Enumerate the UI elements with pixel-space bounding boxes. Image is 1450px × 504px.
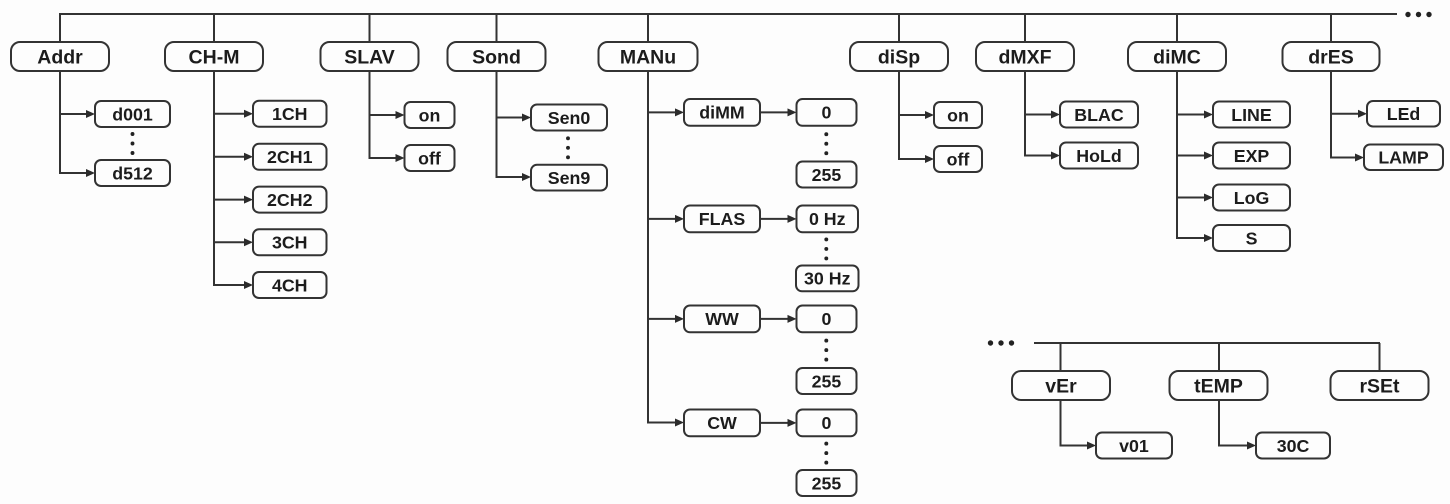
svg-text:4CH: 4CH [272,275,308,295]
svg-text:Sen9: Sen9 [548,168,591,188]
svg-text:d001: d001 [112,104,153,124]
svg-text:255: 255 [812,473,842,493]
svg-text:2CH1: 2CH1 [267,147,313,167]
svg-text:30C: 30C [1277,436,1310,456]
svg-text:rSEt: rSEt [1359,375,1400,397]
svg-text:WW: WW [705,309,739,329]
svg-text:drES: drES [1308,46,1354,68]
svg-text:LINE: LINE [1231,105,1272,125]
svg-text:Sen0: Sen0 [548,108,591,128]
svg-text:v01: v01 [1119,436,1149,456]
svg-text:off: off [947,149,970,169]
svg-text:off: off [418,148,441,168]
svg-text:3CH: 3CH [272,233,308,253]
svg-text:HoLd: HoLd [1076,146,1121,166]
svg-text:255: 255 [812,371,842,391]
svg-text:Addr: Addr [37,46,83,68]
svg-text:diSp: diSp [878,46,920,68]
svg-text:0: 0 [822,413,832,433]
svg-text:CW: CW [707,413,737,433]
svg-text:diMM: diMM [699,103,744,123]
svg-text:LAMP: LAMP [1378,148,1429,168]
svg-text:on: on [419,105,441,125]
svg-text:255: 255 [812,165,842,185]
svg-text:FLAS: FLAS [699,209,746,229]
svg-text:SLAV: SLAV [344,46,395,68]
svg-text:2CH2: 2CH2 [267,190,313,210]
svg-text:d512: d512 [112,163,153,183]
svg-text:LEd: LEd [1387,104,1421,124]
svg-text:BLAC: BLAC [1074,105,1124,125]
svg-text:1CH: 1CH [272,104,308,124]
svg-text:on: on [947,105,969,125]
svg-text:EXP: EXP [1234,146,1270,166]
svg-text:vEr: vEr [1045,375,1077,397]
svg-text:LoG: LoG [1234,188,1270,208]
svg-text:MANu: MANu [620,46,676,68]
svg-text:CH-M: CH-M [189,46,240,68]
svg-text:S: S [1246,228,1258,248]
svg-text:30 Hz: 30 Hz [804,269,851,289]
svg-text:0 Hz: 0 Hz [809,209,846,229]
svg-text:Sond: Sond [472,46,521,68]
svg-text:tEMP: tEMP [1194,375,1243,397]
svg-text:0: 0 [822,309,832,329]
svg-text:0: 0 [822,103,832,123]
svg-text:diMC: diMC [1153,46,1201,68]
svg-text:dMXF: dMXF [998,46,1051,68]
